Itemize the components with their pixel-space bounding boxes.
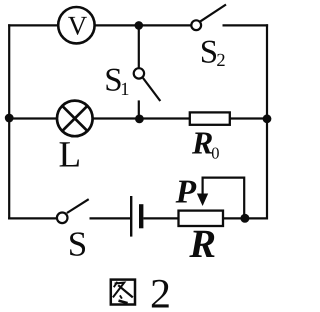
node left junction (5, 114, 14, 123)
node slider junction (240, 214, 249, 223)
wire rheostat to right wall (223, 217, 267, 219)
svg-text:S: S (68, 225, 87, 264)
wire right vertical (266, 24, 268, 219)
voltmeter U1 circle (58, 7, 94, 43)
wire battery to rheostat R (143, 217, 178, 219)
switch S2 pivot circle (191, 20, 201, 30)
switch S1 lever (143, 78, 160, 101)
wire S2 contact to top-right corner (223, 24, 269, 26)
svg-text:P: P (175, 173, 197, 210)
wire middle row left (9, 117, 58, 119)
svg-text:R: R (188, 221, 216, 266)
wire bottom-left corner to switch S (8, 217, 56, 219)
resistor R0 box (190, 112, 230, 124)
svg-text:1: 1 (120, 80, 129, 100)
switch S pivot circle (57, 213, 68, 224)
svg-text:2: 2 (150, 271, 171, 312)
wire S1 fixed contact (138, 100, 140, 118)
lamp L circle (57, 101, 93, 137)
svg-text:R: R (191, 125, 213, 161)
battery short plate (139, 204, 143, 228)
wire slider down to node (243, 177, 245, 219)
wire slider horizontal (202, 177, 245, 179)
wire R0 to right wall (230, 117, 267, 119)
rheostat R box (179, 211, 224, 226)
battery long plate (130, 196, 132, 237)
switch S1 pivot circle (134, 68, 144, 78)
wire left vertical (8, 24, 10, 219)
caption tu inner strokes (113, 282, 133, 303)
wire voltmeter to S2 pivot (95, 24, 192, 26)
node S1-R0 junction (135, 115, 144, 124)
wire middle vertical from top node to S1 (138, 25, 140, 68)
node R0 right junction (263, 114, 272, 123)
svg-text:0: 0 (211, 144, 219, 163)
wire lamp to R0 (92, 117, 190, 119)
switch S2 lever (200, 5, 226, 22)
node top junction (135, 21, 144, 30)
caption character tu (drawn) box (111, 280, 135, 305)
slider arrowhead P (197, 194, 208, 207)
svg-text:S: S (200, 35, 218, 71)
wire top-left to voltmeter (8, 24, 58, 26)
svg-text:V: V (68, 10, 88, 40)
switch S lever (67, 199, 89, 213)
svg-text:L: L (59, 135, 82, 176)
lamp L cross (62, 106, 87, 131)
wire S contact to battery (90, 217, 131, 219)
svg-text:2: 2 (216, 51, 225, 71)
wire slider riser (202, 178, 204, 195)
